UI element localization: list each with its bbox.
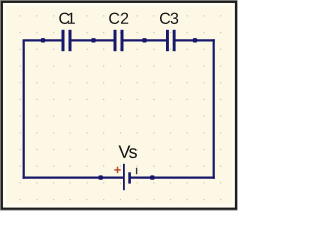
battery plus polarity mark bbox=[114, 167, 120, 173]
junction dot: bottom wire left of battery bbox=[99, 175, 103, 179]
wire top segment: corner to C1 left plate bbox=[23, 39, 63, 41]
junction dot: top wire right of C3 bbox=[193, 38, 197, 42]
capacitor C3 plates bbox=[166, 30, 176, 51]
junction dot: top wire left of C1 bbox=[41, 38, 45, 42]
label C3 bbox=[160, 13, 178, 24]
wire top segment: C1 right plate to C2 left plate bbox=[70, 39, 115, 41]
wire top segment: C2 right plate to C3 left plate bbox=[122, 39, 167, 41]
wire bottom segment: battery negative plate to bottom-right corner bbox=[129, 177, 215, 179]
junction dot: top wire between C1 and C2 bbox=[91, 38, 95, 42]
battery negative polarity tick bbox=[136, 168, 138, 174]
capacitor C1 plates bbox=[62, 30, 72, 51]
junction dot: top wire between C2 and C3 bbox=[142, 38, 146, 42]
wire left vertical (node D to node A) bbox=[23, 40, 25, 178]
wire top segment: C3 right plate to top-right corner bbox=[174, 39, 215, 41]
wire right vertical (node B to node C) bbox=[213, 39, 215, 178]
junction dot: bottom wire right of battery bbox=[150, 175, 154, 179]
battery Vs negative plate (short) bbox=[128, 172, 131, 183]
label C2 bbox=[109, 13, 128, 24]
label C1 bbox=[59, 13, 75, 24]
wire bottom segment: bottom-left corner to battery positive plate bbox=[23, 177, 124, 179]
label Vs bbox=[119, 146, 137, 159]
capacitor C2 plates bbox=[114, 30, 124, 51]
battery Vs positive plate (long) bbox=[123, 164, 125, 190]
